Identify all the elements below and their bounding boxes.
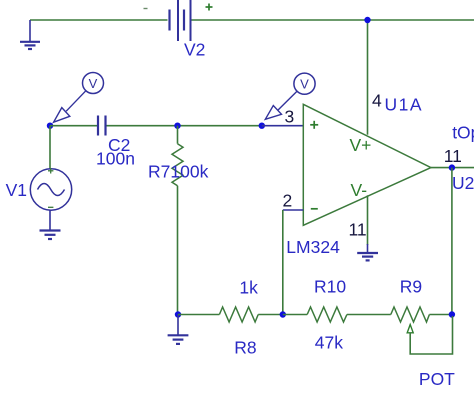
resistor R10 <box>307 307 347 322</box>
svg-text:47k: 47k <box>315 332 343 352</box>
wire R9 to node <box>429 314 452 316</box>
probe P2 circle <box>294 73 315 94</box>
wire node A down to V1 <box>49 126 51 169</box>
pin number 4 <box>372 91 382 111</box>
pin number 3 <box>285 107 295 127</box>
label R8 <box>234 338 256 358</box>
label LM324 <box>286 237 340 257</box>
wire op-amp output <box>431 167 474 169</box>
label V- <box>351 180 368 200</box>
wire C2 to R7 node <box>106 125 262 127</box>
label U2A <box>452 173 474 193</box>
svg-text:3: 3 <box>285 107 295 127</box>
probe P1 arrow <box>54 91 86 122</box>
resistor R8 <box>219 307 258 322</box>
svg-text:V: V <box>89 76 98 91</box>
resistor R9 <box>391 307 430 322</box>
battery minus tick <box>144 8 148 10</box>
svg-text:1k: 1k <box>239 278 258 298</box>
label 100n <box>96 149 135 169</box>
source V1 <box>30 169 71 210</box>
wire V1 to ground <box>49 210 51 230</box>
battery V2 <box>170 0 191 41</box>
svg-text:U1A: U1A <box>385 95 424 115</box>
node 3 dot <box>259 123 265 129</box>
ground under op-amp <box>357 253 378 260</box>
svg-text:LM324: LM324 <box>286 237 340 257</box>
wire junction top to opamp pin4 <box>367 20 369 135</box>
pot wiper arrow <box>407 325 413 333</box>
svg-text:V2: V2 <box>184 40 205 60</box>
svg-text:2: 2 <box>283 191 293 211</box>
svg-text:R8: R8 <box>234 338 256 358</box>
wire top rail right of battery <box>191 19 474 21</box>
wire output down to R9 node <box>451 168 453 315</box>
label V+ <box>350 135 372 155</box>
svg-text:4: 4 <box>372 91 382 111</box>
pin number 11 below V- <box>349 220 367 240</box>
V1 plus mark <box>48 168 53 173</box>
ground under V1 <box>40 231 61 240</box>
label V1 <box>6 180 27 200</box>
op-amp plus input mark <box>310 121 318 129</box>
label R10 <box>314 277 346 297</box>
wire to R8 <box>178 314 219 316</box>
resistor R7 <box>172 144 183 186</box>
op-amp minus input mark <box>311 208 318 210</box>
node A dot <box>47 123 53 129</box>
capacitor C2 <box>98 116 106 136</box>
node output dot <box>449 164 455 170</box>
wire feedback vertical <box>282 210 284 315</box>
node C2/R7 junction dot <box>174 123 180 129</box>
label POT <box>419 369 455 389</box>
node junction top <box>364 17 370 23</box>
svg-text:V-: V- <box>351 180 368 200</box>
label R9 <box>400 277 422 297</box>
pot wiper wire <box>410 316 452 354</box>
node feedback dot <box>280 311 286 317</box>
wire R8 to node <box>258 314 283 316</box>
node bottom-left dot <box>175 311 181 317</box>
op-amp U1A triangle <box>303 104 431 225</box>
svg-text:tOpe: tOpe <box>452 122 474 142</box>
pin 3 stub <box>262 125 304 127</box>
battery plus sign <box>206 4 213 11</box>
label U1A <box>385 95 424 115</box>
svg-text:R9: R9 <box>400 277 422 297</box>
wire node to R10 <box>283 314 307 316</box>
svg-text:11: 11 <box>349 220 367 240</box>
pin number 2 <box>283 191 293 211</box>
label 1k <box>239 278 258 298</box>
pin number 11 output <box>444 146 462 166</box>
svg-text:11: 11 <box>444 146 462 166</box>
wire junction to R7 <box>177 126 179 144</box>
svg-text:V1: V1 <box>6 180 27 200</box>
node R9 right dot <box>449 311 455 317</box>
pin 2 stub <box>283 209 304 211</box>
wire node A to C2 <box>50 125 98 127</box>
ground bottom-left <box>168 315 189 344</box>
probe P2 arrow <box>265 91 297 119</box>
svg-text:V+: V+ <box>350 135 372 155</box>
svg-text:100n: 100n <box>96 149 135 169</box>
svg-text:POT: POT <box>419 369 455 389</box>
label 47k <box>315 332 343 352</box>
wire top rail left of battery <box>30 19 168 21</box>
V1 minus mark <box>48 206 53 208</box>
label V2 <box>184 40 205 60</box>
svg-text:U2A: U2A <box>452 173 474 193</box>
label tOpe net <box>452 122 474 142</box>
wire R10 to R9 <box>347 314 391 316</box>
ground top-left <box>20 20 40 49</box>
label C2 <box>108 135 130 155</box>
wire V- pin to ground <box>367 195 369 252</box>
wire R7 to bottom rail <box>177 186 179 315</box>
svg-text:R10: R10 <box>314 277 346 297</box>
probe P1 circle <box>83 73 104 94</box>
svg-text:V: V <box>300 77 309 92</box>
label R7 100k <box>148 162 209 182</box>
svg-text:R7100k: R7100k <box>148 162 209 182</box>
